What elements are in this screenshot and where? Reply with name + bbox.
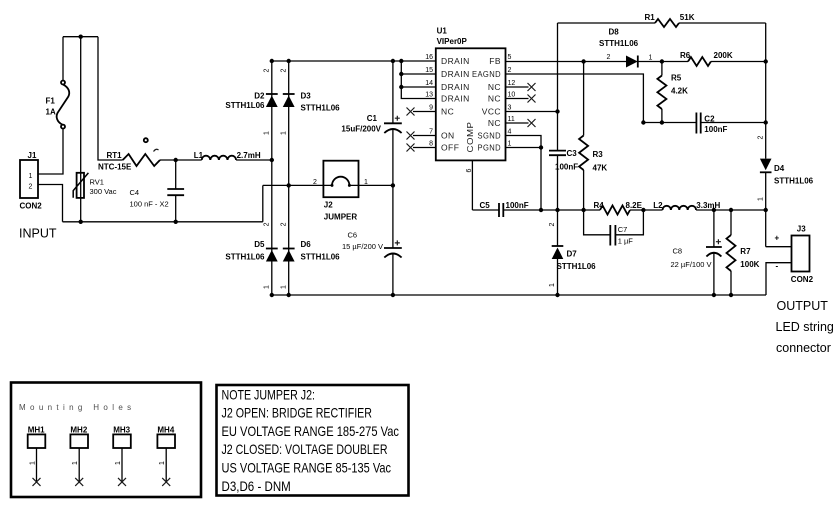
svg-text:J2 CLOSED: VOLTAGE DOUBLER: J2 CLOSED: VOLTAGE DOUBLER bbox=[222, 441, 388, 457]
node EAGND corner bbox=[641, 120, 645, 124]
wire L2 to output node bbox=[696, 209, 766, 211]
wire jumper to C1/C6 midpoint bbox=[349, 184, 393, 186]
node D8 cathode / R5 / R6 bbox=[660, 59, 664, 63]
svg-text:13: 13 bbox=[425, 92, 433, 99]
svg-text:C6: C6 bbox=[348, 230, 358, 239]
svg-text:1: 1 bbox=[159, 461, 166, 465]
wire J3 plus lead bbox=[766, 246, 792, 248]
node top rail B bbox=[287, 59, 291, 63]
svg-text:8.2E: 8.2E bbox=[626, 201, 643, 210]
svg-text:51K: 51K bbox=[680, 13, 695, 22]
node C4 top bbox=[174, 158, 178, 162]
svg-text:D7: D7 bbox=[567, 250, 578, 259]
wire AC2 middle to jumper bbox=[263, 184, 332, 186]
capacitor C1 bbox=[392, 61, 394, 123]
svg-text:C5: C5 bbox=[480, 201, 491, 210]
svg-text:9: 9 bbox=[429, 105, 433, 112]
svg-text:OFF: OFF bbox=[441, 143, 459, 153]
svg-text:1: 1 bbox=[264, 285, 271, 289]
svg-text:FB: FB bbox=[489, 56, 501, 66]
svg-text:STTH1L06: STTH1L06 bbox=[301, 103, 341, 112]
svg-text:DRAIN: DRAIN bbox=[441, 82, 470, 92]
node R7 rail bbox=[729, 293, 733, 297]
node middle wire leg B bbox=[287, 183, 291, 187]
wire pin12 NC stub bbox=[506, 86, 529, 88]
svg-text:COMP: COMP bbox=[465, 122, 475, 153]
svg-text:2: 2 bbox=[281, 68, 288, 72]
wire COMP rail y210 bbox=[472, 209, 600, 211]
svg-text:DRAIN: DRAIN bbox=[441, 56, 470, 66]
svg-text:100 nF - X2: 100 nF - X2 bbox=[130, 200, 169, 209]
wire AC2 step from input rail bbox=[262, 185, 264, 221]
svg-text:200K: 200K bbox=[714, 51, 733, 60]
node D4 output bbox=[764, 208, 768, 212]
svg-text:J2 OPEN: BRIDGE RECTIFIER: J2 OPEN: BRIDGE RECTIFIER bbox=[222, 405, 373, 421]
svg-text:D3,D6 - DNM: D3,D6 - DNM bbox=[222, 478, 291, 494]
svg-text:2: 2 bbox=[607, 54, 611, 61]
node VCC bbox=[555, 109, 559, 113]
svg-text:2: 2 bbox=[29, 184, 33, 191]
thermistor RT1 bbox=[123, 154, 160, 166]
svg-text:15uF/200V: 15uF/200V bbox=[341, 125, 381, 134]
wire J3 minus lead bbox=[766, 263, 792, 295]
wire pin9 NC stub bbox=[413, 111, 436, 113]
svg-text:MH4: MH4 bbox=[157, 425, 174, 434]
resistor R7 bbox=[730, 210, 732, 295]
svg-text:F1: F1 bbox=[46, 97, 56, 106]
svg-text:R7: R7 bbox=[740, 247, 751, 256]
node C4 bottom bbox=[174, 220, 178, 224]
svg-text:R1: R1 bbox=[645, 13, 656, 22]
svg-text:15 µF/200 V: 15 µF/200 V bbox=[342, 242, 383, 251]
svg-text:12: 12 bbox=[508, 80, 516, 87]
wire right branch vertical bbox=[765, 23, 767, 159]
node C3/D7 rail bbox=[555, 208, 559, 212]
svg-text:22 µF/100 V: 22 µF/100 V bbox=[671, 260, 712, 269]
svg-text:R3: R3 bbox=[593, 150, 604, 159]
node R4/L2/C7 bbox=[641, 208, 645, 212]
wire R1 top bbox=[558, 22, 766, 24]
svg-text:U1: U1 bbox=[437, 27, 448, 36]
wire J1 pin2 to bottom input rail bbox=[38, 185, 63, 222]
svg-text:2: 2 bbox=[313, 179, 317, 186]
connector J1 bbox=[20, 160, 38, 198]
svg-text:DRAIN: DRAIN bbox=[441, 69, 470, 79]
node pin15 branch bbox=[399, 72, 403, 76]
svg-text:L2: L2 bbox=[653, 201, 663, 210]
svg-text:LED string: LED string bbox=[776, 320, 834, 334]
thermistor temperature symbol bbox=[144, 138, 148, 142]
svg-text:2: 2 bbox=[549, 222, 556, 226]
svg-text:EU VOLTAGE RANGE 185-275 Vac: EU VOLTAGE RANGE 185-275 Vac bbox=[222, 423, 400, 439]
svg-text:3.3mH: 3.3mH bbox=[696, 201, 720, 210]
wire pin14 bbox=[401, 86, 436, 88]
svg-text:D5: D5 bbox=[254, 240, 265, 249]
svg-text:STTH1L06: STTH1L06 bbox=[599, 39, 639, 48]
svg-text:STTH1L06: STTH1L06 bbox=[557, 262, 597, 271]
diode D7 bbox=[557, 210, 559, 246]
svg-text:MH2: MH2 bbox=[70, 425, 87, 434]
svg-text:1: 1 bbox=[508, 141, 512, 148]
svg-text:16: 16 bbox=[425, 54, 433, 61]
node RV1 bottom bbox=[79, 220, 83, 224]
svg-text:RT1: RT1 bbox=[107, 151, 123, 160]
node C8 rail bbox=[712, 293, 716, 297]
node rail B bbox=[287, 293, 291, 297]
svg-text:connector: connector bbox=[776, 341, 831, 355]
wire bridge leg B bbox=[288, 61, 290, 295]
wire VCC pin3 bbox=[506, 111, 558, 113]
svg-text:J1: J1 bbox=[28, 151, 37, 160]
svg-text:C8: C8 bbox=[673, 247, 683, 256]
svg-text:RV1: RV1 bbox=[90, 177, 104, 186]
svg-text:D3: D3 bbox=[301, 92, 312, 101]
svg-text:15: 15 bbox=[425, 67, 433, 74]
svg-text:3: 3 bbox=[508, 105, 512, 112]
svg-text:100nF: 100nF bbox=[506, 201, 529, 210]
wire right input branch down to RT1 bbox=[98, 37, 123, 160]
wire D8 to R6 bbox=[638, 61, 688, 63]
wire bridge leg A bbox=[271, 61, 273, 295]
svg-text:C7: C7 bbox=[618, 225, 628, 234]
svg-text:10: 10 bbox=[508, 92, 516, 99]
node top rail C1 line bbox=[391, 59, 395, 63]
wire fuse lower lead to J1 pin1 bbox=[38, 129, 63, 174]
svg-text:1: 1 bbox=[281, 285, 288, 289]
node top rail A bbox=[270, 59, 274, 63]
svg-text:J3: J3 bbox=[797, 224, 806, 233]
svg-text:+: + bbox=[775, 233, 780, 242]
resistor R5 bbox=[661, 62, 663, 123]
fuse F1 bbox=[61, 81, 65, 85]
node right branch C2 bbox=[764, 120, 768, 124]
svg-text:NOTE JUMPER J2:: NOTE JUMPER J2: bbox=[222, 386, 316, 402]
svg-text:1A: 1A bbox=[46, 107, 56, 116]
svg-text:DRAIN: DRAIN bbox=[441, 94, 470, 104]
svg-text:1: 1 bbox=[649, 55, 653, 62]
wire bottom input rail bbox=[63, 221, 263, 223]
wire PGND pin1 bbox=[506, 147, 542, 149]
svg-text:Mounting Holes: Mounting Holes bbox=[19, 403, 136, 412]
svg-text:2: 2 bbox=[264, 68, 271, 72]
svg-text:SGND: SGND bbox=[478, 131, 502, 141]
node rail A bbox=[270, 293, 274, 297]
op-amp U1 VIPer0P body bbox=[436, 48, 506, 160]
svg-text:1: 1 bbox=[549, 283, 556, 287]
node top rail drain branch bbox=[399, 59, 403, 63]
svg-text:100nF: 100nF bbox=[555, 162, 578, 171]
svg-text:STTH1L06: STTH1L06 bbox=[301, 252, 341, 261]
svg-text:R5: R5 bbox=[671, 74, 682, 83]
node R7 top bbox=[729, 208, 733, 212]
svg-text:47K: 47K bbox=[593, 163, 608, 172]
wire EAGND pin2 bbox=[506, 74, 644, 123]
wire pin11 NC stub bbox=[506, 122, 529, 124]
wire drain branch vertical bbox=[401, 61, 436, 99]
svg-text:2: 2 bbox=[264, 222, 271, 226]
svg-text:MH3: MH3 bbox=[113, 425, 130, 434]
svg-text:100nF: 100nF bbox=[704, 125, 727, 134]
svg-text:14: 14 bbox=[425, 80, 433, 87]
node FB / R3 top bbox=[581, 59, 585, 63]
svg-text:100K: 100K bbox=[740, 260, 759, 269]
wire pin8 OFF stub bbox=[413, 147, 436, 149]
diode D5 bbox=[266, 248, 278, 250]
diode D4 bbox=[760, 159, 772, 171]
svg-text:1: 1 bbox=[29, 173, 33, 180]
svg-text:7: 7 bbox=[429, 129, 433, 136]
node pin14 branch bbox=[399, 85, 403, 89]
svg-text:2: 2 bbox=[508, 67, 512, 74]
svg-text:STTH1L06: STTH1L06 bbox=[225, 252, 265, 261]
svg-text:5: 5 bbox=[508, 54, 512, 61]
capacitor C4 bbox=[175, 160, 177, 189]
svg-text:EAGND: EAGND bbox=[472, 69, 501, 79]
wire L1 to bridge node A bbox=[236, 159, 272, 161]
wire bottom ground rail bbox=[272, 294, 766, 296]
node rail C6 bbox=[391, 293, 395, 297]
node bridge A / L1 bbox=[270, 158, 274, 162]
svg-text:1: 1 bbox=[281, 131, 288, 135]
svg-text:C1: C1 bbox=[367, 114, 378, 123]
capacitor C3 bbox=[549, 151, 566, 156]
diode D2 bbox=[266, 93, 278, 95]
wire FB to D8 bbox=[506, 61, 627, 63]
svg-text:C4: C4 bbox=[130, 188, 140, 197]
node C1/C6 midpoint bbox=[391, 183, 395, 187]
svg-text:NC: NC bbox=[488, 118, 501, 128]
svg-text:STTH1L06: STTH1L06 bbox=[774, 176, 814, 185]
diode D8 bbox=[626, 56, 638, 68]
svg-text:2.7mH: 2.7mH bbox=[237, 151, 261, 160]
wire pin15 bbox=[401, 73, 436, 75]
node top rail / RV1 junction bbox=[79, 35, 83, 39]
wire EAGND node to C2 bbox=[643, 122, 696, 124]
diode D6 bbox=[283, 248, 295, 250]
svg-text:2: 2 bbox=[757, 135, 764, 139]
svg-text:D6: D6 bbox=[301, 240, 312, 249]
svg-text:300 Vac: 300 Vac bbox=[90, 187, 117, 196]
wire pin10 NC stub bbox=[506, 98, 529, 100]
svg-text:CON2: CON2 bbox=[791, 275, 814, 284]
wire R1 left leg down to VCC bbox=[557, 23, 559, 151]
svg-text:-: - bbox=[776, 262, 779, 271]
svg-text:1: 1 bbox=[264, 131, 271, 135]
svg-text:1: 1 bbox=[757, 197, 764, 201]
capacitor C6 bbox=[384, 247, 402, 249]
wire pin7 ON stub bbox=[413, 135, 436, 137]
wire top input rail bbox=[63, 36, 98, 38]
svg-text:D4: D4 bbox=[774, 164, 785, 173]
node right branch R6 bbox=[764, 59, 768, 63]
svg-text:CON2: CON2 bbox=[20, 202, 43, 211]
svg-text:11: 11 bbox=[508, 116, 515, 123]
svg-text:1: 1 bbox=[115, 461, 122, 465]
svg-text:1: 1 bbox=[72, 461, 79, 465]
svg-text:NC: NC bbox=[488, 94, 501, 104]
svg-text:INPUT: INPUT bbox=[19, 227, 57, 241]
mounting holes box bbox=[11, 383, 201, 498]
node PGND rail bbox=[539, 208, 543, 212]
note box bbox=[217, 385, 409, 496]
node D7 rail bbox=[555, 293, 559, 297]
wire D4 to output node bbox=[765, 172, 767, 246]
svg-text:NC: NC bbox=[441, 107, 454, 117]
node R5 bottom bbox=[660, 120, 664, 124]
svg-text:D2: D2 bbox=[254, 92, 265, 101]
svg-text:ON: ON bbox=[441, 131, 455, 141]
svg-text:C3: C3 bbox=[567, 149, 578, 158]
resistor R3 bbox=[583, 62, 585, 211]
wire PGND down bbox=[540, 148, 542, 211]
svg-text:4.2K: 4.2K bbox=[671, 87, 688, 96]
wire R6 to right branch bbox=[711, 61, 766, 63]
svg-text:1: 1 bbox=[30, 461, 37, 465]
jumper J2 bbox=[323, 161, 358, 198]
wire SGND pin4 bbox=[506, 136, 542, 148]
capacitor C8 bbox=[713, 210, 715, 247]
svg-text:4: 4 bbox=[508, 129, 512, 136]
svg-text:STTH1L06: STTH1L06 bbox=[225, 101, 265, 110]
wire C2 to right branch bbox=[701, 122, 766, 124]
varistor RV1 bbox=[80, 37, 82, 222]
capacitor C2 bbox=[696, 113, 700, 134]
svg-text:6: 6 bbox=[466, 168, 473, 172]
svg-text:1 µF: 1 µF bbox=[618, 237, 634, 246]
wire bridge top rail to U1 pin16 bbox=[272, 60, 436, 62]
capacitor C7 loop bbox=[584, 210, 644, 235]
svg-text:J2: J2 bbox=[324, 201, 333, 210]
wire fuse upper lead bbox=[62, 37, 64, 81]
svg-text:2: 2 bbox=[281, 222, 288, 226]
node PGND bbox=[539, 145, 543, 149]
svg-text:OUTPUT: OUTPUT bbox=[777, 299, 829, 313]
svg-text:JUMPER: JUMPER bbox=[324, 212, 358, 221]
connector J3 bbox=[792, 236, 810, 272]
svg-text:NC: NC bbox=[488, 82, 501, 92]
svg-text:8: 8 bbox=[429, 141, 433, 148]
wire R4 to L2 bbox=[630, 209, 663, 211]
svg-text:PGND: PGND bbox=[478, 143, 502, 153]
svg-text:D8: D8 bbox=[609, 28, 620, 37]
wire COMP pin6 bbox=[471, 160, 473, 210]
svg-text:NTC-15E: NTC-15E bbox=[98, 163, 132, 172]
svg-text:MH1: MH1 bbox=[28, 425, 45, 434]
svg-text:VCC: VCC bbox=[482, 107, 501, 117]
svg-text:US VOLTAGE RANGE 85-135 Vac: US VOLTAGE RANGE 85-135 Vac bbox=[222, 460, 392, 476]
svg-text:VIPer0P: VIPer0P bbox=[437, 37, 468, 46]
wire RT1 to L1 bbox=[160, 159, 202, 161]
node C8 top bbox=[712, 208, 716, 212]
diode D3 bbox=[283, 93, 295, 95]
node R3 rail bbox=[581, 208, 585, 212]
